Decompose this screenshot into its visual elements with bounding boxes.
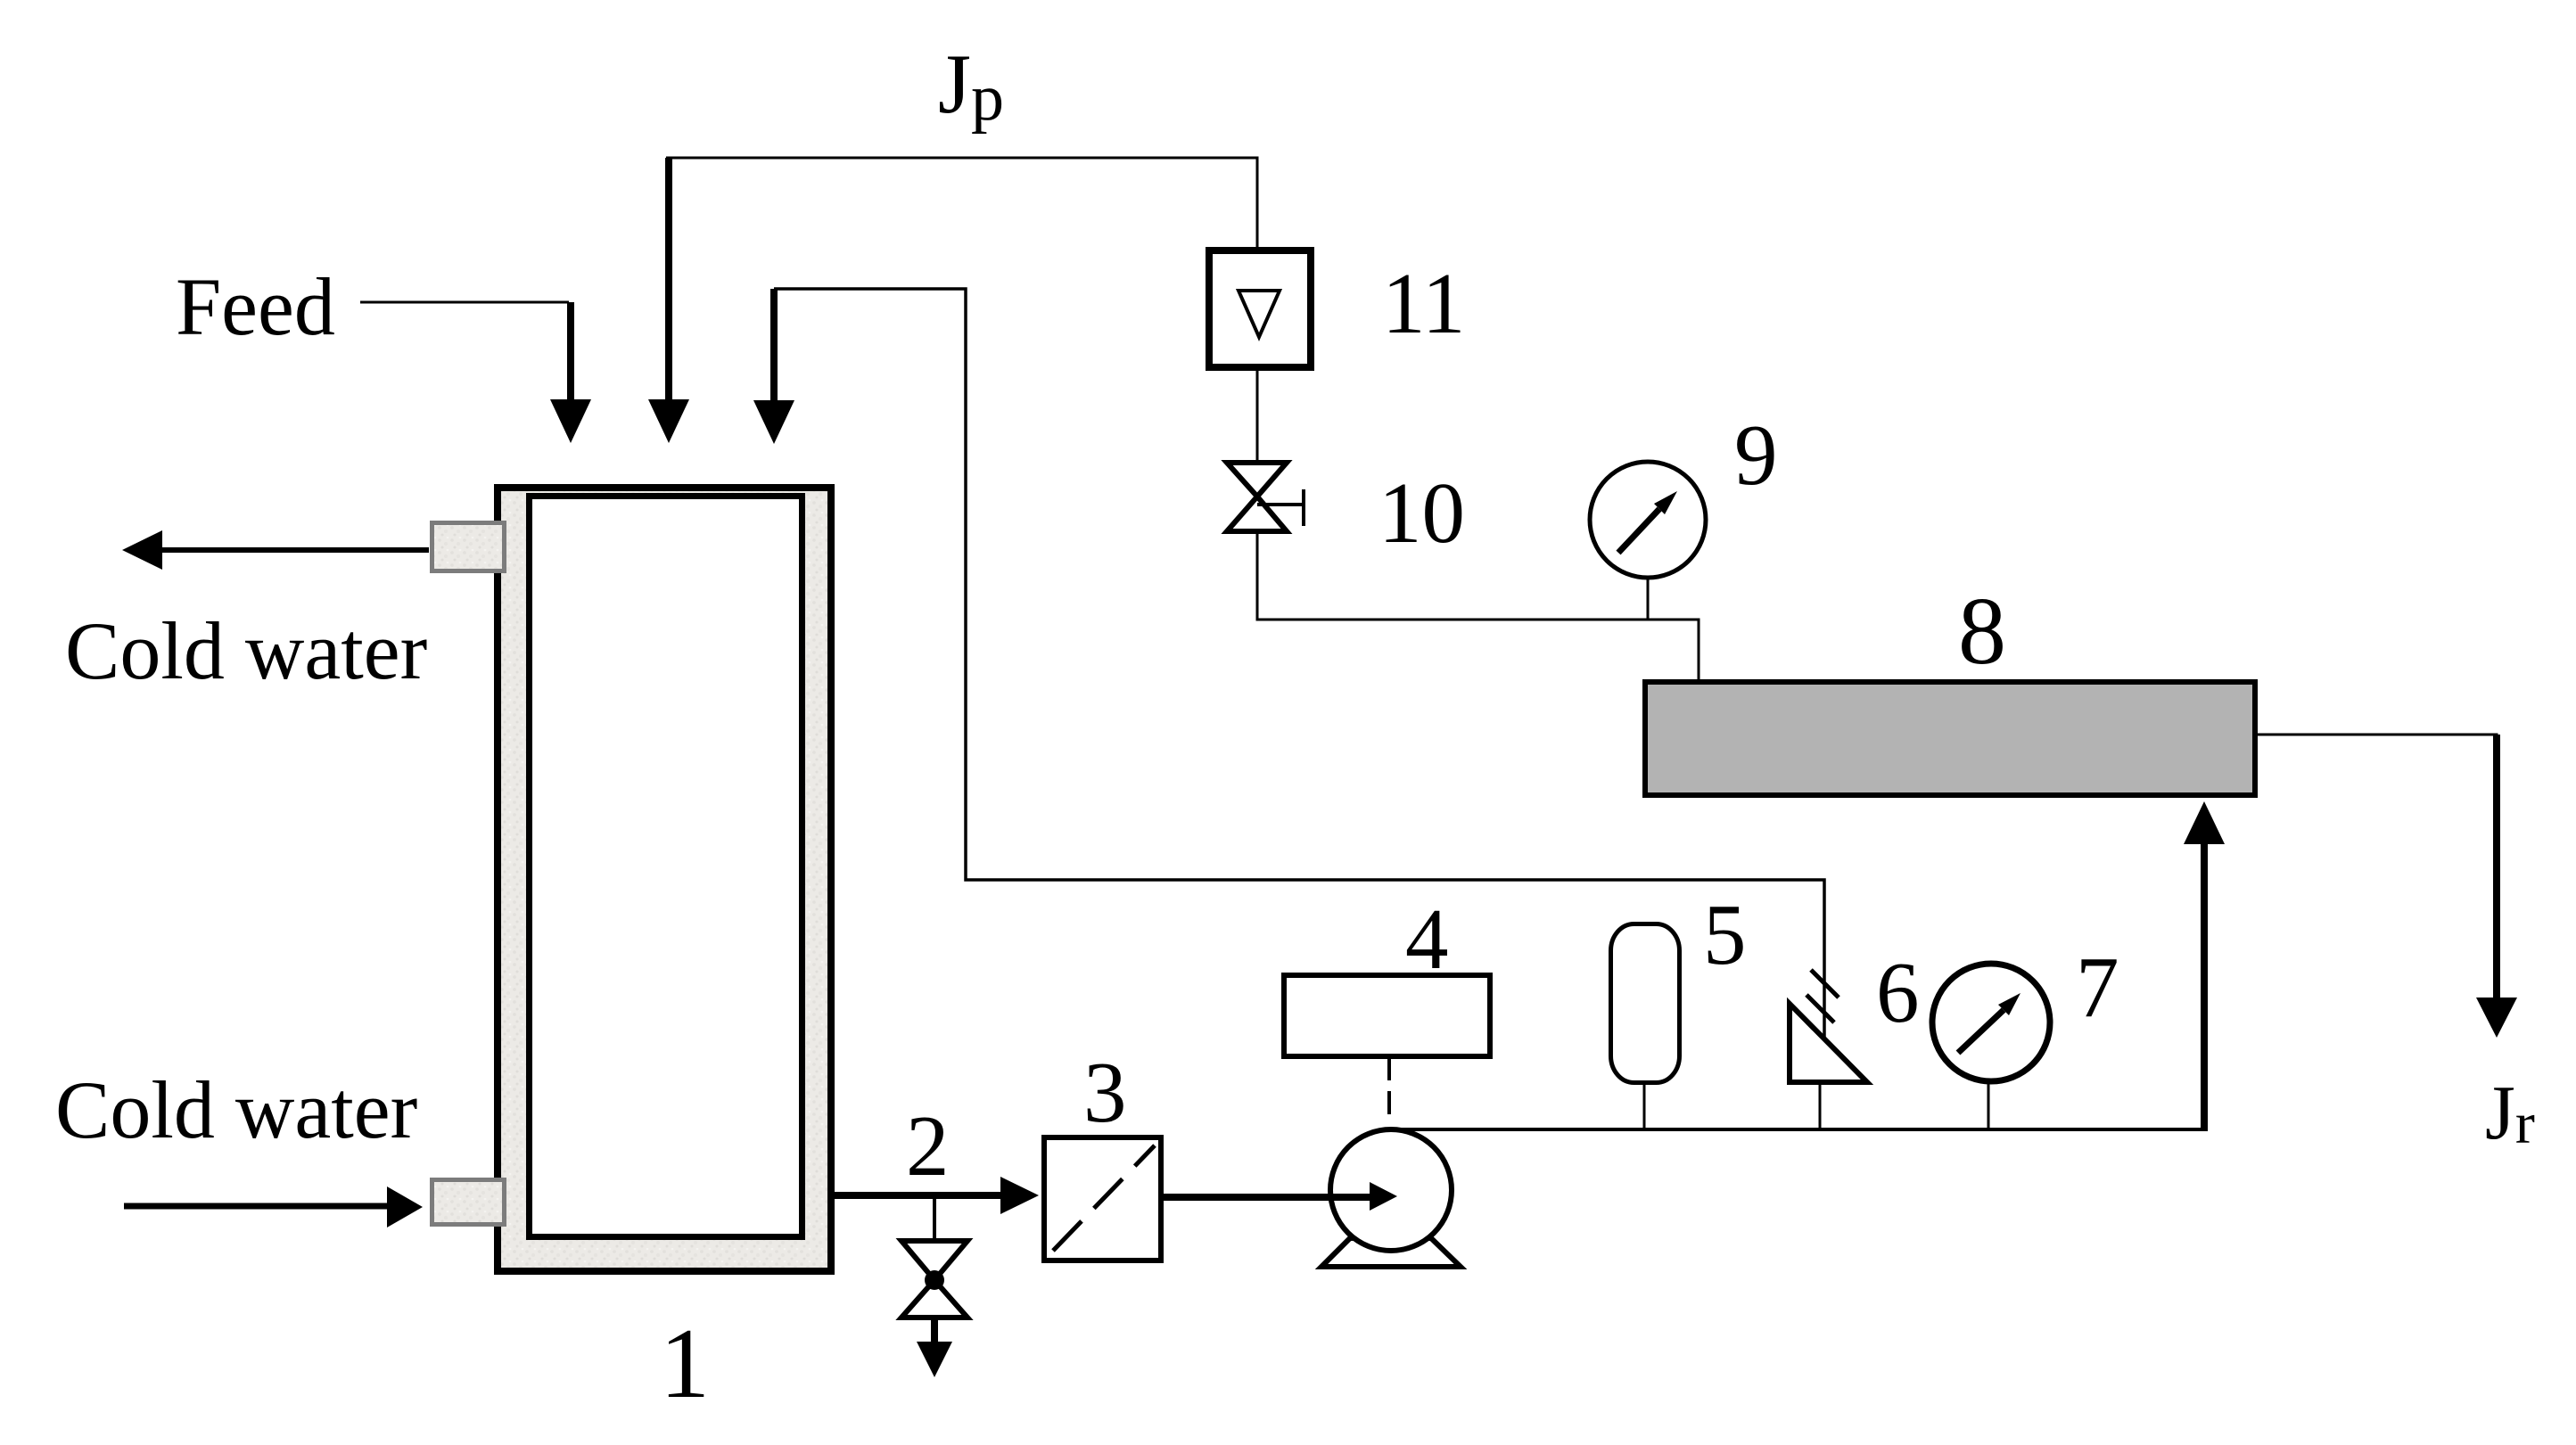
wire module 8 outlet to Jr [2258,735,2497,891]
feed arrow into tank [550,302,591,443]
arrow filter 3 to pump [1164,1182,1397,1211]
flexible-connection slashes [1806,970,1839,1022]
dashed link 4 to pump [1387,1057,1391,1125]
svg-text:8: 8 [1958,579,2006,685]
drain arrow [917,1317,952,1377]
pulsation damper 5 [1611,924,1680,1083]
wire gauge 7 stub [1988,1081,1990,1129]
tank bottom cold-water port [432,1180,505,1225]
main recirculation line [1387,1128,2208,1131]
membrane module 8 [1645,682,2255,795]
wire valve 10 to module 8 [1257,531,1699,682]
svg-text:2: 2 [906,1098,950,1194]
tank top cold-water port [432,523,505,571]
wire feed label line [360,301,569,304]
cold water outlet arrow [122,530,429,570]
svg-text:5: 5 [1703,887,1747,982]
pressure gauge 9 [1590,462,1706,578]
wire damper 5 stub [1643,1083,1646,1129]
pressure gauge 7 [1932,964,2050,1081]
filter 3 [1044,1137,1161,1260]
arrow riser into module 8 [2184,801,2225,1129]
cold water inlet arrow [124,1186,423,1227]
flow meter 11 [1209,250,1311,367]
valve 10 [1227,463,1304,531]
svg-text:Cold water: Cold water [65,605,427,696]
tank 1 inner vessel [530,497,802,1237]
svg-text:4: 4 [1405,891,1449,987]
Jr arrow [2476,735,2517,1038]
svg-text:11: 11 [1382,256,1465,351]
wire funnel 6 stub [1819,1082,1822,1129]
svg-text:Feed: Feed [176,261,335,352]
retentate arrow into tank [753,289,794,444]
svg-text:10: 10 [1379,465,1465,561]
svg-text:7: 7 [2076,940,2119,1035]
drain valve 2 [901,1241,967,1318]
permeate arrow into tank [648,158,689,443]
svg-text:3: 3 [1083,1045,1127,1140]
pump [1330,1129,1452,1251]
svg-text:6: 6 [1876,945,1920,1040]
svg-text:Cold water: Cold water [55,1064,417,1155]
wire branch to drain valve 2 [933,1195,936,1242]
wire retentate elbow [774,289,1824,1041]
controller box 4 [1284,975,1490,1056]
tank outlet arrow to filter 3 [835,1177,1039,1214]
drain funnel 6 [1790,1004,1867,1082]
svg-text:1: 1 [660,1309,710,1419]
wire gauge 9 stub [1647,579,1650,620]
wire Jp permeate line [666,158,1257,248]
svg-text:9: 9 [1734,407,1778,503]
tank 1 outer wall [498,488,831,1271]
pump base [1321,1238,1461,1267]
wire 11 to valve 10 [1256,371,1259,464]
